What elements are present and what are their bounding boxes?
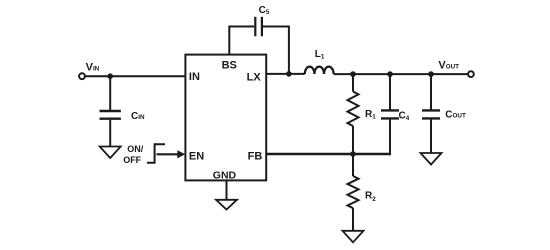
wire L1 to VOUT <box>334 73 468 75</box>
wire EN arrow <box>157 150 186 158</box>
wire R1 top <box>352 74 354 91</box>
capacitor CIN <box>100 111 121 119</box>
step waveform symbol <box>147 144 165 163</box>
IC regulator body <box>185 55 266 181</box>
ground CIN <box>100 147 121 159</box>
wire R2 bottom <box>352 208 354 231</box>
wire R1 bottom <box>352 126 354 154</box>
terminal VIN <box>79 73 85 79</box>
pin label IN <box>189 71 200 83</box>
wire C4 bottom to FB line <box>389 118 391 155</box>
wire bootstrap cap to LX rail <box>263 27 289 74</box>
label C4 <box>399 110 410 122</box>
label CIN <box>131 111 145 122</box>
label VOUT <box>438 60 459 72</box>
label COUT <box>445 110 466 121</box>
capacitor COUT <box>422 110 440 118</box>
label C5 <box>259 5 270 16</box>
wire BS to bootstrap cap <box>229 27 254 55</box>
node R1 top junction <box>350 71 356 77</box>
inductor L1 <box>305 67 334 74</box>
wire R2 top <box>352 154 354 176</box>
wire COUT bottom <box>430 120 432 154</box>
svg-text:EN: EN <box>189 151 204 163</box>
terminal VOUT <box>468 71 474 77</box>
capacitor C4 feedforward <box>381 110 399 118</box>
svg-text:OFF: OFF <box>123 155 141 165</box>
ground GND pin <box>216 200 237 210</box>
node COUT top junction <box>428 71 434 77</box>
ground COUT <box>421 153 442 165</box>
pin label FB <box>248 150 263 162</box>
wire LX to L1 <box>266 73 305 75</box>
wire C4 top <box>389 74 391 110</box>
svg-text:BS: BS <box>222 59 237 71</box>
resistor R1 <box>348 92 359 127</box>
wire FB line <box>266 153 390 156</box>
capacitor C5 bootstrap <box>255 17 262 37</box>
pin label EN <box>189 151 204 163</box>
svg-text:GND: GND <box>213 169 237 181</box>
node C4 top junction <box>387 71 393 77</box>
label L1 <box>315 49 325 61</box>
pin label BS <box>222 59 237 71</box>
label R2 <box>365 191 376 203</box>
label VIN <box>86 61 100 73</box>
wire COUT top <box>430 74 432 110</box>
wire GND pin <box>226 180 228 200</box>
node BS/LX junction <box>286 71 292 77</box>
label ON/OFF <box>123 144 144 165</box>
svg-text:LX: LX <box>247 71 262 83</box>
node FB junction <box>350 151 356 157</box>
wire VIN to IN pin <box>85 75 185 77</box>
ground R2 <box>343 231 364 243</box>
wire CIN bottom <box>109 120 111 147</box>
svg-text:IN: IN <box>189 71 200 83</box>
svg-text:FB: FB <box>248 150 263 162</box>
pin label GND <box>213 169 237 181</box>
pin label LX <box>247 71 262 83</box>
wire CIN top <box>109 76 111 110</box>
label R1 <box>365 109 376 121</box>
svg-text:ON/: ON/ <box>127 144 144 154</box>
resistor R2 <box>348 176 359 208</box>
node VIN/CIN junction <box>107 73 113 79</box>
